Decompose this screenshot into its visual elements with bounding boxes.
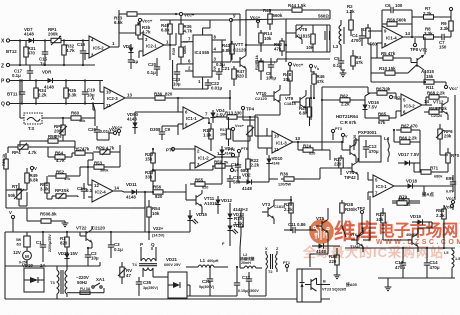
resistor R27 220 [334,155,343,175]
diode VD18 [405,179,424,189]
wire R23 bottom row [152,188,154,193]
zener VD4 2.5V [210,108,225,123]
resistor R34 2.2k [34,79,47,103]
capacitor C7 [438,34,451,50]
transistor VT10 C2120 [255,85,280,107]
node V- [9,210,15,232]
ground bot [385,284,392,291]
power Vcc+ top [160,12,205,20]
resistor R62 47k [274,38,284,56]
wire rail 248 left [17,250,19,252]
wire 555 top to y terminal [205,20,231,28]
potentiometer RP4 4.7k [8,143,42,155]
diode VD13 [227,203,248,224]
node A [91,96,95,105]
zener VD12 [215,196,232,210]
resistor R48 10k [283,68,292,90]
resistor R22 2.2k [246,134,260,178]
switch XA1 [92,277,105,288]
wire R29 to C11 [290,222,292,231]
resistor R35 3.3k [64,79,77,103]
IC4 555 timer [173,28,226,89]
node V+ [30,166,37,172]
wire IC2-4 output joins VD11 row [122,191,124,192]
capacitor E95 6.0V [446,175,456,194]
resistor R20 15k [145,148,155,170]
node Vb2 [341,133,348,143]
node BT12 [6,39,21,65]
wire TP2 area [357,196,370,240]
resistor R1 820 [60,231,69,252]
inductor L1 400uH [186,258,228,267]
capacitor C24 1u [128,56,139,69]
wire bottom mid [187,285,237,296]
resistor R8 3.3k [404,27,439,40]
resistor R37 6.7k [179,20,193,42]
resistor R79 10k [392,195,420,208]
capacitor C21 5u400V [199,266,215,296]
capacitor C11 0.86 [284,222,306,233]
resistor R36 820 output row [131,92,183,101]
wire VT5 collector [306,208,328,230]
test point PT6 [228,147,248,157]
oscillator loop wires [246,19,330,62]
node BT11 [7,92,18,97]
power Vcc- [97,127,119,140]
test point PT5 [166,147,195,152]
potentiometer RP6 20k [436,124,453,148]
diode VD8 [123,44,134,58]
resistor R41 6.8k [222,41,234,60]
op-amp IC1-2 [190,146,228,170]
resistor R4 47k [351,50,364,70]
terminal P [1,79,103,85]
potentiometer RP9 4.7k [93,146,120,156]
terminal top right [449,7,452,21]
inductor L4 [384,136,390,162]
resistor R50b 1k [2,153,8,176]
capacitor C1 2200u/35V [36,231,52,262]
wires botright [240,262,262,268]
wire IC3-1 output to VD18 [404,186,424,196]
wire VT10 emitter to IC1-3 [255,107,280,121]
wire R22b to VD19 [383,222,432,240]
long vertical x230 [229,90,231,110]
inductor L3 [333,20,344,57]
right rail x455 [454,95,456,200]
resistor R69 2.2k [424,106,447,114]
wire flyback top [310,238,328,267]
resistor R9 3.3k [440,18,453,37]
wire VT6 to rail [362,247,364,252]
resistor R7 2.2k [412,6,451,19]
power Vcc2 top right [446,196,455,210]
terminal Q [1,102,104,108]
wire IC2-3 out to center [183,90,231,99]
transistor VT12 C2120 [431,97,448,120]
resistor R29 2.2k [284,200,293,222]
resistor R11 15k [371,74,446,90]
resistor R54b 10k [147,200,161,232]
resistor R2 1.2k [346,4,355,36]
resistor R31 470 [24,41,36,66]
transistor VT? C2120 right [342,135,357,162]
resistor R79b 10k top [392,197,420,206]
inductor L2 degauss [240,253,260,268]
wire x190 down [149,228,190,232]
capacitor C15 [39,39,48,66]
resistor R54c 2.2k [436,205,446,228]
label 560 ohm [318,14,329,19]
resistor R38b 220 [329,248,340,279]
op-amp IC2-3 [100,81,132,110]
resistor R44 1.5k top [246,3,330,19]
resistor 10k vt8 [306,25,315,52]
zener VD17 7.5V [398,152,420,166]
resistor R51 3.3k [40,176,49,199]
resistor R75 2.2k [234,210,243,234]
transformer T4 [132,247,157,277]
power Vcc- right [444,204,454,209]
node V+ b [230,166,240,173]
wire top mid links [245,10,247,46]
resistor R62b 2.2k [321,94,365,107]
wire R28 col down [342,222,346,237]
wire corner x322 [322,87,368,150]
resistor R64 4.7k [48,151,72,164]
resistor R39 680k [172,42,187,64]
capacitor C18 [19,79,25,103]
resistor R32 4.7k [62,39,75,65]
wires midleft [6,141,120,206]
power Vcc+ left [112,125,123,136]
resistor R28 R30K [340,200,358,222]
test point PT3 [331,127,342,140]
transistor VTT C2120 [232,42,246,78]
potentiometer RP3 5k [52,188,72,199]
transistor VT8 C1815 [286,25,310,44]
wire IC1-1 out down to PT5 row [195,118,211,151]
diode VD2 4148 [238,173,262,192]
resistor R5 47k [371,51,411,63]
power Vcc+ [138,18,152,25]
wire VT9 collector column [306,85,312,120]
wire net A down from Q row [93,104,95,111]
wire VT5 to VT6 [334,245,340,247]
resistor R57 47k [72,147,93,156]
wire VD2 join [238,178,269,183]
wire 555 pin8 up [222,39,226,41]
resistor R56 560k feedback [382,18,412,27]
wire mid column x145 [144,191,146,232]
sensor T.S [20,104,68,132]
ground osc [340,70,347,77]
wire VT22 emitter to rail [67,247,92,252]
resistor R67b 10k [368,87,396,96]
label VD22 600V [164,257,181,267]
wire C8 R15 top rail [255,59,330,62]
LED VD14 [227,223,244,240]
varistor RV 47 [118,262,132,284]
capacitor C4 4700 [351,30,365,46]
diode VD5 4148 [219,146,233,158]
potentiometer RP1 [48,27,64,45]
transformer T2 [265,246,279,274]
capacitor C24b [77,183,93,199]
resistor R58 2k [40,134,75,143]
terminal Z [1,63,95,69]
op-amp IC5-2 [85,10,119,60]
wire RP9 to R53 vertical [119,160,121,167]
capacitor C20b 0.01u [88,126,111,140]
resistor R67 470 [396,124,420,133]
resistor R65 67k [374,112,396,126]
label 220V 50Hz [76,275,89,285]
potentiometer RP2 200k [54,117,67,141]
capacitor C9 [150,126,171,140]
terminal X [1,39,88,45]
resistor R24 820 [298,144,322,156]
resistor R66 2.2k [394,136,420,145]
resistor R14 10k [259,30,273,52]
crystal resonator [325,25,330,52]
main rail y232 [5,232,120,299]
resistor R60 10k [68,104,95,127]
op-amp IC1-3 [243,120,305,155]
capacitor C17 [12,65,33,81]
diode VD90 4148 [127,112,139,134]
wire row 208 [6,190,130,208]
capacitor C5 0.1u [333,56,344,70]
terminal y [229,13,236,41]
wire R70 down to R71 [440,170,448,172]
transistor VT11 A1015 [186,190,217,210]
label A05 [345,282,357,287]
label HDT2 R64 [336,114,359,125]
op-amp IC2-1 [139,33,176,60]
resistor R33 6.8k [114,12,240,36]
label connect A [421,191,435,198]
node F [222,240,230,246]
resistor R70 [446,148,460,170]
wire row 266 [5,262,100,266]
resistor R47b 6.8k [299,98,312,126]
capacitor C20 0.1u [147,58,160,76]
capacitor C13 470u [395,247,406,278]
labels P Q [140,242,155,250]
op-amp IC3-1 [368,172,404,200]
wire power rails right of IC4 [222,40,226,72]
resistor R50 6.8k [27,208,68,227]
wire IC3-2 inputs [365,93,374,118]
resistor R56b 820 [150,185,186,200]
capacitor C16 [77,39,86,65]
zener VD16 7.5V [362,100,379,116]
wire row 248 [345,247,455,249]
wire top rail [175,13,177,15]
transistor VT4 TIP42 [344,158,358,180]
resistor R36b 120/5W [272,172,305,187]
capacitor C14 470u [424,247,440,278]
bottom rail [5,298,330,300]
op-amp IC1-1 [178,105,209,130]
photodetector PXP3001 [354,130,381,162]
diode 4148 bot [312,243,334,254]
resistor R55 820 [190,178,213,190]
flyback output stage VT23 [297,269,321,302]
resistor R46 47k [311,71,325,92]
zener VD21 15V [58,251,78,266]
wire left col x371 [368,44,377,82]
op-amp IC3-2 [396,93,432,118]
transistor VT5 [316,214,328,238]
wire y rail 20 [231,19,286,21]
transistor VT22 C2120 [76,226,105,249]
capacitor C32 [238,272,259,293]
wire RP6 col down [440,148,448,155]
mosfet 40N60 [406,228,418,252]
resistor R22b 10k [376,208,385,232]
inductor L5 [444,248,460,278]
test point TP4 [241,106,254,120]
wire VD18 to E95 [424,185,453,187]
transformer T3 [50,265,67,299]
wire vd12 col [202,210,218,214]
capacitor C23 10u [172,64,186,87]
resistor R19 1.9k [203,123,213,146]
resistor 5W 6ohm [16,232,30,251]
capacitor C6 100 feedback [382,3,412,37]
resistor R59 1.5k [212,160,230,169]
capacitor C12 470u [363,140,379,158]
capacitor C22 0.01u [205,79,223,91]
resistor R45 560k [263,8,283,30]
resistor R71 680k [414,166,443,179]
potentiometer RP5 [246,117,254,141]
resistor R47 820 [232,66,245,86]
wire 555 pin3 out [226,41,231,62]
wire to IC2-1 input [138,33,143,39]
bridge rectifier 2 [153,272,190,298]
capacitor C2 10u [85,248,99,266]
capacitor C8 100u [266,58,276,81]
resistor R23 33k [145,168,155,188]
wire L2 left col [240,234,241,262]
wire left rail verticals [19,79,21,103]
diode VD7 [24,27,36,43]
resistor R15 11k [254,54,263,80]
capacitor C3 0.1u [108,231,123,258]
zener VD19 [410,214,432,225]
watermark logo circle dzsc [309,219,334,244]
power Vcc+ mid [288,62,303,70]
label VT23 SQ0265 [322,288,346,292]
test point TP2 [357,206,366,220]
resistor R52 47k [48,170,80,182]
wire R36 to VT4 [297,168,345,179]
resistor R13 330 [213,111,258,120]
resistor R40 6.8k [161,20,172,45]
wire IC1-1 inputs long [135,97,179,135]
op-amp IC1-4 [377,26,425,50]
resistor R49 6.8k [25,168,39,190]
capacitor mid [234,266,240,296]
transistor VT6 T1841 [350,228,363,252]
wire R65 R66 left col [393,129,420,172]
node V22 14.5V [120,226,165,240]
op-amp IC2-4 [88,180,122,202]
wire R54c down [443,228,445,249]
wire T2 bottom to rail [249,274,266,296]
wire row 278 [378,278,455,284]
power Vcc' [444,82,457,91]
resistor R17 10k [220,117,231,146]
wire R55 to VT11 [186,157,222,192]
transistor VT9 C1815 [284,90,306,113]
resistor R3 560 [361,24,377,47]
power Vcc+ R45 [250,15,261,28]
resistor R53 560k [88,161,118,173]
capacitor C16b 680 [231,158,248,178]
test point TP7 [389,95,400,100]
power Vcc+ mid2 [231,124,250,141]
diode VDR 4148 [42,70,55,90]
node Vb [309,64,319,72]
capacitor C35 [136,277,159,296]
transistor VT3 C1815 [262,200,285,224]
capacitor C21 0.1u [216,62,230,80]
diode VD11 4148 [124,182,152,200]
wire IC1-2 fb [152,166,213,171]
thermistor RT 50k [8,183,24,206]
test point PT1 [283,261,290,272]
wire VD10 down to R36 row [269,170,272,179]
test point TP8 [410,38,419,52]
resistor R68 2.2k [426,91,447,106]
wire 208 to 232 link [130,192,145,208]
resistor R38 4.7k [136,22,151,39]
motor M 12V [13,250,31,266]
bridge VD20 2A [22,263,46,292]
diode VD10 4148 [266,155,283,170]
fuse FU 3A [67,287,104,294]
label B terminal [321,280,330,285]
wire IC1-3 out to VT base [297,141,343,150]
transistor VT2 A1015 [411,37,434,82]
capacitor C19 10u [82,79,96,103]
capacitor C10 560 [227,175,242,188]
wire R24 right branch [322,150,330,160]
wire R13 to IC1-3 pin11 [258,117,267,148]
wire Vb column [280,90,315,101]
wire VT3 collector to R29 [274,196,292,201]
resistor R10 15k [371,65,417,76]
test point PT6b [228,148,235,157]
wire VT9 emitter down [305,98,307,113]
LED VD15 [187,210,207,228]
